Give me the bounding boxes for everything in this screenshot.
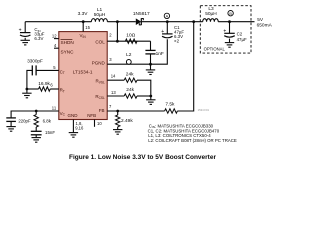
svg-text:NFB: NFB [87, 113, 96, 118]
wire 7.5k to FB takeoff [177, 22, 193, 111]
note L2 [148, 138, 237, 143]
node junction RT [26, 88, 29, 91]
svg-text:15: 15 [85, 25, 90, 30]
svg-text:5V: 5V [257, 17, 264, 23]
plus sign C1 [161, 29, 164, 35]
node junction VC filter [35, 110, 38, 113]
wire VC [11, 111, 59, 118]
wire RCSL to join [137, 95, 151, 97]
svg-text:650mA: 650mA [257, 23, 273, 29]
label 33uF [34, 32, 44, 37]
pin 5 label [53, 65, 56, 70]
svg-text:3300pF: 3300pF [27, 59, 43, 64]
svg-text:24k: 24k [126, 87, 134, 93]
U1 pin name CT [60, 69, 65, 75]
resistor 2.49k [116, 111, 120, 127]
U1 pin name VIN [80, 33, 87, 39]
wire 220pF to ground [10, 121, 12, 126]
svg-text:C2: C2 [237, 32, 243, 37]
wire RCSL [107, 95, 124, 97]
svg-text:GND: GND [68, 113, 79, 118]
wire 6.8k to 15nF [35, 127, 37, 131]
label L1 50uH [94, 12, 106, 18]
wire C1 top [166, 22, 168, 34]
label L2 [126, 52, 132, 58]
node A circle [164, 13, 169, 19]
label 1N5817 [133, 11, 150, 17]
label pins 9 16 [75, 126, 84, 131]
svg-text:13: 13 [111, 90, 116, 95]
label 220pF [18, 119, 31, 124]
wire C2 top [229, 22, 231, 34]
svg-text:+: + [19, 28, 22, 34]
note C1 C2 [148, 128, 220, 133]
label 10 ohm [126, 32, 135, 38]
label C1 x2 [174, 38, 180, 43]
svg-text:50µH: 50µH [205, 11, 217, 17]
label C1 6.3V [174, 34, 183, 39]
capacitor 3300pF [32, 65, 36, 75]
resistor 16.9k [27, 87, 59, 91]
diode D1 1N5817 [136, 18, 144, 25]
inductor L3 [203, 19, 219, 22]
wire 3300pF left to RT node [27, 70, 32, 89]
label C2 47uF [237, 37, 247, 42]
svg-text:24k: 24k [126, 71, 134, 77]
U1 part label LT1534-1 [73, 69, 93, 74]
svg-text:A: A [166, 15, 169, 19]
svg-text:7.5k: 7.5k [165, 101, 175, 107]
label L3 50uH [205, 11, 217, 17]
svg-text:SYNC: SYNC [61, 50, 75, 55]
node junction FB divider [116, 110, 119, 113]
wire PGND to ground [150, 64, 152, 70]
svg-text:10: 10 [97, 121, 102, 126]
wire FB [107, 110, 164, 112]
pin 15 label [85, 25, 90, 30]
wire L3 to output [218, 21, 254, 23]
wire COL to snubber [107, 40, 150, 42]
label 16.9k [38, 81, 50, 87]
wire 1nF to PGND rail [150, 54, 152, 64]
node junction C2 [228, 20, 231, 23]
wire CT pin to cap [36, 69, 59, 71]
ground RT [22, 93, 31, 98]
label 7.5k [165, 101, 175, 107]
label 650mA [257, 23, 273, 29]
capacitor CIN top wire [24, 22, 26, 33]
svg-text:12: 12 [52, 33, 57, 38]
svg-text:OPTIONAL: OPTIONAL [204, 46, 226, 51]
wire D1 to node A [141, 21, 202, 23]
ground 24k [146, 100, 155, 105]
svg-text:9,16: 9,16 [75, 126, 84, 131]
ground 2.49k [113, 130, 122, 135]
plus sign CIN [19, 28, 22, 34]
wire NFB stub [94, 120, 96, 127]
wire C1 bottom to pgnd rail [151, 39, 168, 64]
svg-text:+: + [161, 29, 164, 35]
U1 pin name RVSL [96, 79, 106, 85]
U1 pin name FB [99, 108, 105, 113]
U1 pin name COL [95, 40, 105, 45]
capacitor 15nF [31, 131, 42, 135]
label 6.3V [34, 36, 43, 41]
ground 220pF [6, 127, 15, 132]
ground 15nF [32, 138, 41, 143]
node B circle [228, 11, 233, 17]
ground CIN [21, 40, 30, 45]
node junction COL riser [116, 20, 119, 23]
resistor 6.8k [34, 111, 38, 127]
label 6.8k [43, 118, 52, 123]
svg-text:6.8k: 6.8k [43, 118, 52, 123]
label OPTIONAL [204, 46, 226, 51]
svg-text:14: 14 [111, 74, 116, 79]
resistor 7.5k [165, 109, 178, 113]
svg-text:+: + [223, 28, 226, 34]
U1 pin name NFB [87, 113, 96, 118]
svg-text:1nF: 1nF [156, 51, 164, 57]
inductor L1 [91, 19, 107, 22]
resistor 24k RCSL [124, 94, 137, 98]
label 24k RCSL [126, 87, 134, 93]
wire RT node to ground [26, 89, 28, 93]
ground U1 GND [69, 133, 78, 138]
svg-text:×2: ×2 [174, 38, 180, 43]
label C1 47uF [174, 30, 184, 35]
node junction C1 [166, 20, 169, 23]
svg-text:L2: L2 [126, 52, 132, 58]
pin 10 label [97, 121, 102, 126]
pin 11 label [52, 106, 57, 111]
U1 pin name RT [60, 88, 65, 94]
svg-text:47µF: 47µF [237, 37, 247, 42]
resistor 24k RVSL [124, 78, 137, 82]
svg-text:11: 11 [52, 106, 57, 111]
capacitor CIN [20, 33, 31, 37]
svg-text:2.49k: 2.49k [121, 118, 133, 124]
pin 14 label [111, 74, 116, 79]
svg-text:220pF: 220pF [18, 119, 31, 124]
capacitor 220pF [6, 118, 16, 122]
U1 pin name PGND [92, 61, 106, 66]
label C2 [237, 32, 243, 37]
wire GND pin to ground [72, 120, 74, 133]
note L1 L3 [148, 133, 211, 138]
label C1 [174, 25, 180, 30]
label 3300pF [27, 59, 43, 64]
svg-text:PGND: PGND [92, 61, 106, 66]
svg-text:COL: COL [95, 40, 105, 45]
optional filter box [200, 6, 251, 53]
label L3 [208, 6, 214, 12]
pin 12 label [52, 33, 57, 38]
caption Figure 1 [69, 154, 216, 161]
node junction FB takeoff [192, 20, 195, 23]
node junction COL [116, 40, 119, 43]
label 1534 F01 [198, 108, 210, 112]
svg-text:FB: FB [99, 108, 105, 113]
pin 2 label [109, 33, 112, 38]
U1 pin name RCSL [95, 94, 105, 100]
IC U1 LT1534-1 body [59, 32, 107, 120]
capacitor C2 [224, 33, 235, 37]
ground C2 [225, 43, 234, 48]
svg-text:L2: COILCRAFT B08T (28nH) OR P: L2: COILCRAFT B08T (28nH) OR PC TRACE [148, 138, 237, 143]
label 1nF [156, 51, 164, 57]
pin 3 label [109, 57, 112, 62]
resistor 10 ohm [125, 39, 137, 43]
label 2.49k [121, 118, 133, 124]
inductor L2 bead [126, 60, 131, 65]
capacitor C1 [162, 34, 173, 38]
wire 2.49k to ground [117, 127, 119, 130]
label 5V [257, 17, 264, 23]
wire VIN stub [82, 22, 84, 32]
pin 6 label [50, 83, 53, 88]
wire SYNC stub [54, 47, 59, 49]
svg-text:Figure 1. Low Noise 3.3V to 5V: Figure 1. Low Noise 3.3V to 5V Boost Con… [69, 154, 216, 161]
label 3.3V [78, 11, 89, 17]
U1 pin name SYNC [61, 50, 75, 55]
wire SHDN stub [54, 38, 59, 40]
wire RVSL [107, 79, 124, 81]
label pins 1 8 [76, 121, 83, 126]
wire COL riser [116, 22, 118, 42]
wire 24k node to ground [150, 96, 152, 100]
U1 pin name GND [68, 113, 79, 118]
label L1 [97, 7, 103, 13]
capacitor 1nF snubber wire [150, 41, 152, 50]
wire C2 to ground [229, 39, 231, 43]
svg-text:50µH: 50µH [94, 12, 106, 18]
svg-text:6.3V: 6.3V [34, 36, 43, 41]
wire L1 to D1 [107, 21, 135, 23]
svg-text:1534 F01: 1534 F01 [198, 108, 210, 112]
node junction VIN [82, 20, 85, 23]
capacitor 1nF [145, 50, 155, 54]
plus sign C2 [223, 28, 226, 34]
svg-text:15nF: 15nF [45, 130, 55, 135]
node junction PGND ground [149, 63, 152, 66]
wire PGND [107, 63, 150, 65]
node junction 24k [149, 95, 152, 98]
label 24k RVSL [126, 71, 134, 77]
pin 13 label [111, 90, 116, 95]
label 15nF [45, 130, 55, 135]
wire 3.3V input rail [25, 21, 91, 23]
svg-text:3.3V: 3.3V [78, 11, 89, 17]
U1 pin name VC [60, 111, 66, 117]
svg-text:1N5817: 1N5817 [133, 11, 150, 17]
wire RVSL to join [137, 80, 151, 96]
pin 4 label [54, 43, 57, 48]
pin 7 label [109, 104, 112, 109]
svg-text:10Ω: 10Ω [126, 32, 135, 38]
wire 15nF to ground [35, 135, 37, 138]
svg-text:SHDN: SHDN [61, 40, 74, 45]
note CIN [149, 123, 214, 129]
wire CIN to ground [24, 38, 26, 40]
svg-text:LT1534-1: LT1534-1 [73, 69, 93, 74]
svg-text:16.9k: 16.9k [38, 81, 50, 87]
ground PGND [146, 70, 155, 75]
label CIN [34, 27, 40, 33]
U1 pin name SHDN [61, 40, 74, 45]
